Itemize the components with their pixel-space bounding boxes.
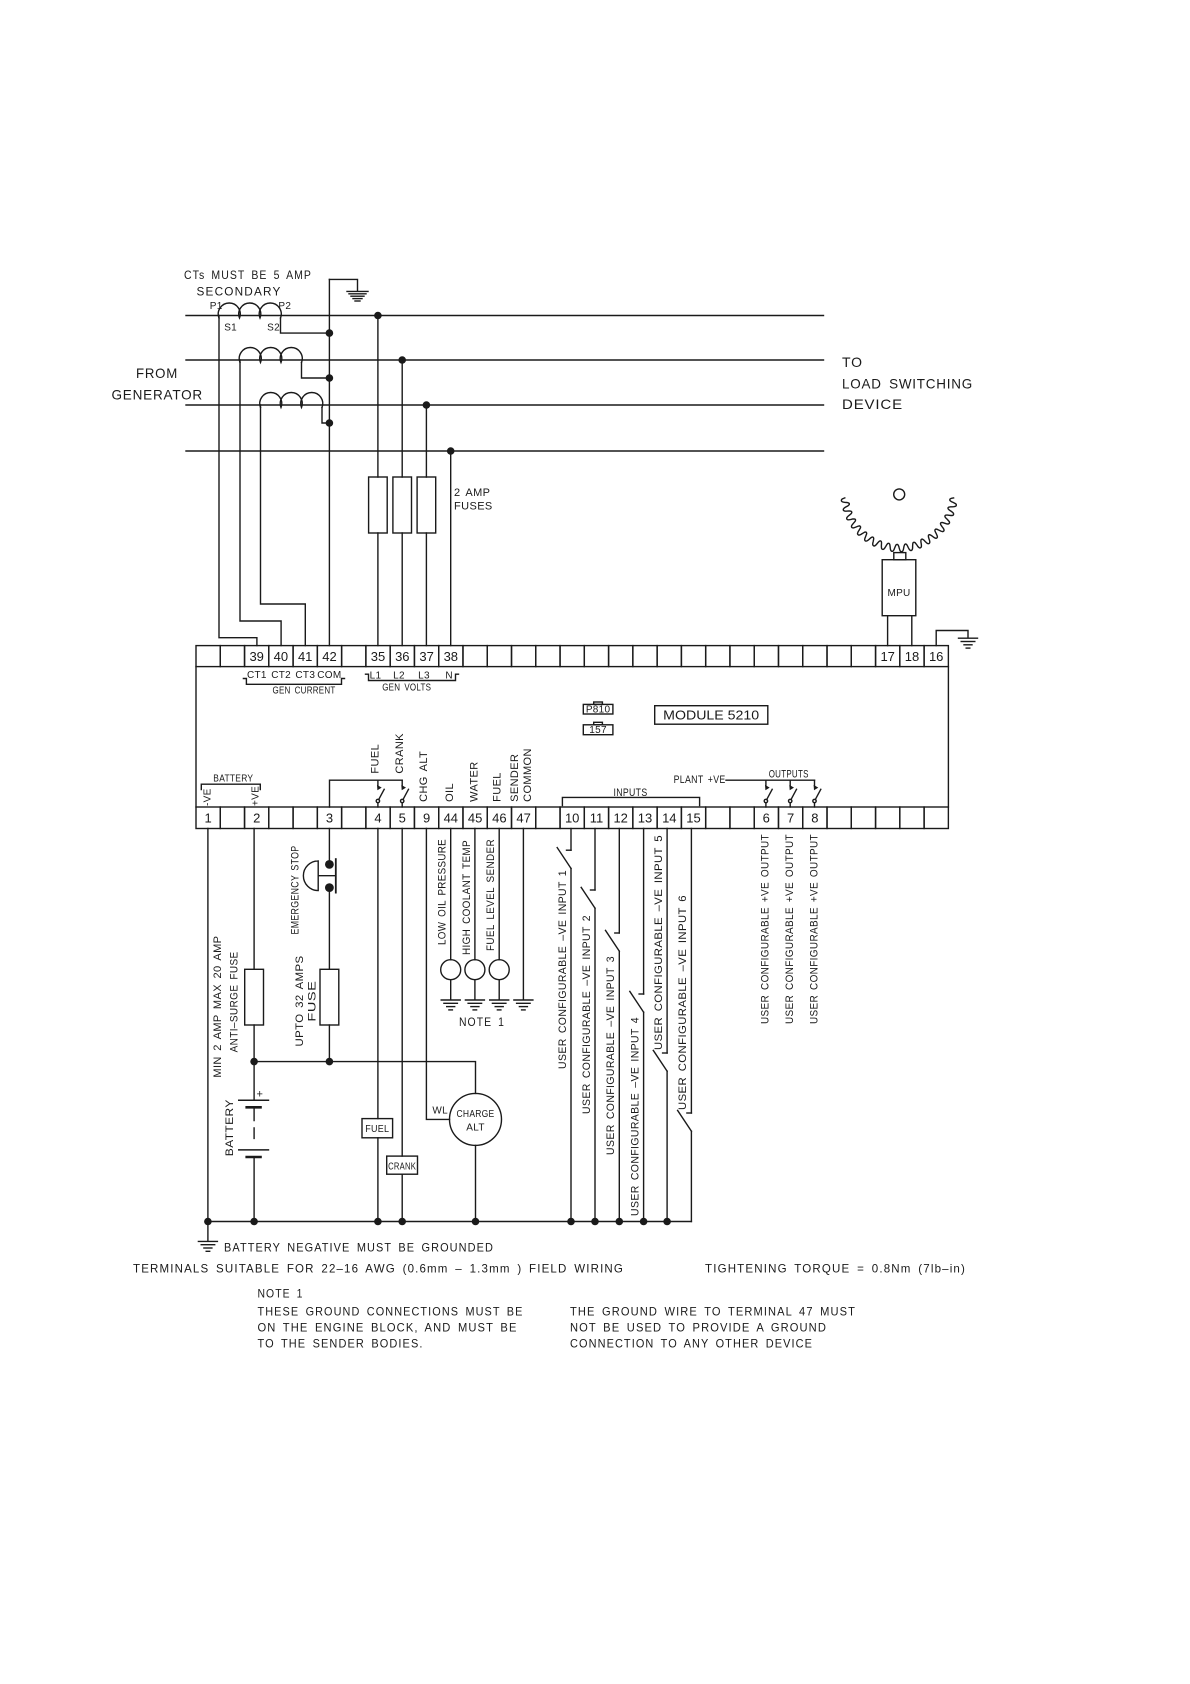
svg-text:13: 13 bbox=[638, 811, 652, 826]
fuse 2A L2 bbox=[393, 477, 412, 533]
svg-text:WATER: WATER bbox=[468, 761, 480, 802]
note text right bbox=[570, 1305, 856, 1351]
junction battery positive link bbox=[250, 1058, 258, 1066]
fuse 2A L3 bbox=[417, 477, 436, 533]
svg-text:OUTPUTS: OUTPUTS bbox=[769, 769, 809, 781]
svg-text:CRANK: CRANK bbox=[394, 733, 406, 774]
bracket GEN CURRENT bbox=[243, 679, 344, 685]
svg-text:CT1: CT1 bbox=[247, 670, 267, 681]
wire battery negative bus bbox=[208, 1221, 692, 1223]
svg-text:BATTERY: BATTERY bbox=[213, 774, 253, 785]
svg-text:CT3: CT3 bbox=[295, 670, 315, 681]
relay contact OUTPUT terminal 7 bbox=[789, 780, 791, 785]
svg-text:FUEL: FUEL bbox=[369, 744, 381, 774]
relay box FUEL bbox=[362, 1119, 393, 1138]
svg-text:-VE: -VE bbox=[202, 788, 213, 806]
svg-text:10: 10 bbox=[565, 811, 579, 826]
wire terminal 3 down to emergency stop bbox=[328, 829, 330, 865]
svg-text:1: 1 bbox=[204, 811, 211, 826]
wire terminal 9 to charge alternator WL bbox=[426, 829, 449, 1120]
CT1 current transformer coil bbox=[218, 303, 281, 318]
wire CT3 S1 to terminal 41 bbox=[261, 405, 306, 646]
svg-text:USER CONFIGURABLE +VE OUTPUT: USER CONFIGURABLE +VE OUTPUT bbox=[784, 834, 796, 1024]
svg-text:SECONDARY: SECONDARY bbox=[197, 285, 282, 299]
svg-text:BATTERY NEGATIVE MUST BE GROUN: BATTERY NEGATIVE MUST BE GROUNDED bbox=[224, 1241, 494, 1255]
junction phase tap L1 bbox=[374, 312, 382, 320]
svg-text:P1: P1 bbox=[210, 301, 223, 312]
label TO LOAD SWITCHING DEVICE bbox=[842, 354, 973, 412]
wire phase line LN bbox=[186, 450, 824, 452]
relay contact OUTPUT terminal 6 bbox=[765, 780, 767, 785]
svg-text:USER CONFIGURABLE –VE INPUT 2: USER CONFIGURABLE –VE INPUT 2 bbox=[581, 915, 593, 1114]
svg-text:FUEL LEVEL SENDER: FUEL LEVEL SENDER bbox=[485, 839, 497, 951]
MPU magnetic pickup body bbox=[882, 553, 916, 616]
wire 32A fuse to plant supply link bbox=[328, 1025, 330, 1062]
input switch USER CONFIGURABLE -VE INPUT 3 bbox=[606, 829, 620, 1222]
wire terminal 2 to anti-surge fuse bbox=[253, 829, 255, 970]
svg-text:NOTE 1: NOTE 1 bbox=[258, 1287, 304, 1301]
svg-text:14: 14 bbox=[662, 811, 676, 826]
svg-text:TO THE SENDER BODIES.: TO THE SENDER BODIES. bbox=[258, 1337, 424, 1351]
svg-text:COM: COM bbox=[317, 670, 341, 681]
emergency stop push button bbox=[325, 860, 334, 869]
svg-text:46: 46 bbox=[492, 811, 506, 826]
wire L3 tap down to terminal bbox=[425, 405, 427, 646]
wire terminal to sender HIGH COOLANT TEMP bbox=[474, 829, 476, 960]
svg-text:PLANT +VE: PLANT +VE bbox=[674, 774, 726, 786]
wire terminal 47 to ground bbox=[522, 829, 524, 1000]
junction phase tap L3 bbox=[423, 401, 431, 409]
svg-text:S1: S1 bbox=[224, 323, 237, 334]
junction bus input 2 bbox=[591, 1218, 599, 1226]
wire battery negative to bus bbox=[253, 1157, 255, 1222]
link 157 bbox=[583, 722, 613, 734]
terminal numbers top bbox=[249, 649, 943, 664]
svg-text:39: 39 bbox=[249, 649, 263, 664]
sender circle FUEL LEVEL SENDER bbox=[489, 960, 509, 980]
relay contact FUEL (terminal 4) bbox=[377, 780, 379, 785]
svg-text:CT2: CT2 bbox=[271, 670, 291, 681]
svg-text:THESE GROUND CONNECTIONS MUST: THESE GROUND CONNECTIONS MUST BE bbox=[258, 1305, 524, 1319]
svg-text:GEN CURRENT: GEN CURRENT bbox=[273, 686, 336, 697]
wire COM line to terminal 42 bbox=[328, 279, 330, 645]
svg-text:5: 5 bbox=[399, 811, 406, 826]
svg-text:35: 35 bbox=[371, 649, 385, 664]
wire terminal 16 to ground bbox=[936, 631, 968, 646]
svg-text:LOW OIL PRESSURE: LOW OIL PRESSURE bbox=[437, 839, 449, 945]
svg-text:+: + bbox=[257, 1089, 264, 1101]
svg-text:42: 42 bbox=[322, 649, 336, 664]
labels L1 L2 L3 N bbox=[370, 671, 453, 682]
svg-text:UPTO 32 AMPS: UPTO 32 AMPS bbox=[294, 956, 306, 1047]
wire sender to ground bbox=[474, 980, 476, 1000]
wire charge alternator to bus bbox=[475, 1145, 477, 1221]
label SENDER COMMON bbox=[509, 748, 534, 802]
svg-text:EMERGENCY STOP: EMERGENCY STOP bbox=[289, 846, 301, 935]
svg-text:CRANK: CRANK bbox=[388, 1162, 416, 1173]
terminal numbers bottom bbox=[204, 811, 818, 826]
svg-text:CHARGE: CHARGE bbox=[457, 1109, 495, 1120]
svg-text:+VE: +VE bbox=[251, 786, 262, 806]
sender circle HIGH COOLANT TEMP bbox=[465, 960, 485, 980]
svg-text:OIL: OIL bbox=[444, 783, 456, 802]
wire L2 tap down to terminal bbox=[401, 360, 403, 646]
ground CT common earth bbox=[347, 291, 368, 301]
svg-text:3: 3 bbox=[326, 811, 333, 826]
terminal strip bottom bbox=[196, 807, 948, 829]
wire MPU to terminal 18 bbox=[911, 616, 913, 646]
charge alternator circle bbox=[450, 1093, 502, 1145]
fuse upto 32 amps bbox=[320, 969, 339, 1025]
label CHARGE ALT bbox=[457, 1109, 495, 1134]
svg-text:47: 47 bbox=[516, 811, 530, 826]
flywheel gear teeth bbox=[841, 498, 956, 552]
svg-text:CHG ALT: CHG ALT bbox=[418, 751, 430, 802]
wire terminal 4 through FUEL relay box to bus bbox=[377, 829, 379, 1222]
wire CT1 S2 to COM bbox=[281, 318, 330, 333]
wire sender to ground bbox=[498, 980, 500, 1000]
svg-text:P810: P810 bbox=[586, 704, 611, 715]
svg-text:USER CONFIGURABLE –VE INPUT 4: USER CONFIGURABLE –VE INPUT 4 bbox=[629, 1017, 641, 1216]
svg-text:P2: P2 bbox=[278, 301, 291, 312]
svg-text:FUSES: FUSES bbox=[454, 501, 493, 513]
wire phase line L3 bbox=[186, 404, 824, 406]
wire emergency stop to 32A fuse bbox=[328, 888, 330, 970]
junction bus input 4 bbox=[640, 1218, 648, 1226]
wire L1 tap down to terminal bbox=[377, 316, 379, 646]
wire phase line L2 bbox=[186, 359, 824, 361]
battery cells bbox=[238, 1100, 269, 1157]
svg-text:GENERATOR: GENERATOR bbox=[112, 387, 204, 403]
svg-text:37: 37 bbox=[419, 649, 433, 664]
junction bus input 1 bbox=[567, 1218, 575, 1226]
wire battery inter-cell dashed bbox=[253, 1107, 255, 1138]
svg-text:USER CONFIGURABLE +VE OUTPUT: USER CONFIGURABLE +VE OUTPUT bbox=[760, 834, 772, 1024]
junction phase tap N bbox=[447, 447, 455, 455]
svg-text:USER CONFIGURABLE –VE INPUT 5: USER CONFIGURABLE –VE INPUT 5 bbox=[653, 835, 665, 1050]
svg-text:18: 18 bbox=[905, 649, 919, 664]
svg-text:15: 15 bbox=[686, 811, 700, 826]
svg-text:S2: S2 bbox=[267, 323, 280, 334]
svg-text:MIN 2 AMP MAX 20 AMP: MIN 2 AMP MAX 20 AMP bbox=[212, 936, 224, 1078]
wire sender to ground bbox=[450, 980, 452, 1000]
ground battery negative bbox=[207, 1222, 209, 1242]
junction phase tap L2 bbox=[398, 356, 406, 364]
wire CT1 S1 to terminal 39 bbox=[219, 316, 257, 646]
module name box MODULE 5210 bbox=[655, 706, 768, 725]
svg-text:ANTI–SURGE FUSE: ANTI–SURGE FUSE bbox=[228, 951, 240, 1052]
svg-text:SENDER: SENDER bbox=[509, 754, 521, 802]
svg-text:6: 6 bbox=[763, 811, 770, 826]
label CTs MUST BE 5 AMP SECONDARY bbox=[184, 268, 312, 299]
input switch USER CONFIGURABLE -VE INPUT 2 bbox=[581, 829, 595, 1222]
svg-text:COMMON: COMMON bbox=[522, 748, 534, 802]
svg-text:INPUTS: INPUTS bbox=[614, 787, 648, 799]
svg-text:USER CONFIGURABLE +VE OUTPUT: USER CONFIGURABLE +VE OUTPUT bbox=[808, 834, 820, 1024]
svg-text:HIGH COOLANT TEMP: HIGH COOLANT TEMP bbox=[461, 840, 473, 955]
bracket GEN VOLTS bbox=[366, 674, 459, 680]
ground terminal 16 earth bbox=[959, 638, 978, 648]
svg-text:TO: TO bbox=[842, 354, 863, 370]
svg-text:LOAD SWITCHING: LOAD SWITCHING bbox=[842, 376, 973, 392]
wire terminal to sender FUEL LEVEL SENDER bbox=[498, 829, 500, 960]
svg-text:USER CONFIGURABLE –VE INPUT 1: USER CONFIGURABLE –VE INPUT 1 bbox=[557, 870, 569, 1069]
svg-text:WL: WL bbox=[432, 1106, 448, 1117]
ground sender earth bbox=[490, 1000, 509, 1010]
svg-text:ALT: ALT bbox=[466, 1123, 485, 1134]
CT2 current transformer coil bbox=[239, 348, 302, 363]
flywheel center mark circle bbox=[894, 489, 905, 500]
svg-text:7: 7 bbox=[787, 811, 794, 826]
svg-text:16: 16 bbox=[929, 649, 943, 664]
wire terminal 3 riser to relay rail bbox=[330, 780, 403, 807]
wire fuse to battery junction bbox=[253, 1025, 255, 1100]
bracket INPUTS bbox=[562, 797, 699, 805]
svg-text:17: 17 bbox=[880, 649, 894, 664]
svg-text:41: 41 bbox=[298, 649, 312, 664]
svg-text:FUSE: FUSE bbox=[307, 981, 319, 1022]
junction CT1 S2/COM bbox=[326, 329, 334, 337]
svg-text:8: 8 bbox=[811, 811, 818, 826]
note text left bbox=[258, 1305, 524, 1351]
CT3 current transformer coil bbox=[260, 393, 323, 408]
wire CT2 S2 to COM bbox=[302, 363, 330, 379]
svg-text:40: 40 bbox=[274, 649, 288, 664]
wire terminal 1 to battery negative bus bbox=[207, 829, 209, 1222]
fuse anti-surge bbox=[245, 969, 264, 1025]
input switch USER CONFIGURABLE -VE INPUT 1 bbox=[557, 829, 571, 1222]
labels CT1 CT2 CT3 COM bbox=[247, 670, 342, 681]
wire N tap down to terminal bbox=[450, 451, 452, 646]
svg-text:GEN VOLTS: GEN VOLTS bbox=[382, 683, 431, 694]
input switch USER CONFIGURABLE -VE INPUT 6 bbox=[678, 829, 692, 1222]
svg-text:45: 45 bbox=[468, 811, 482, 826]
svg-text:2: 2 bbox=[253, 811, 260, 826]
fuse 2A L1 bbox=[369, 477, 388, 533]
label FROM GENERATOR bbox=[112, 365, 204, 403]
wire CT3 S2 to COM bbox=[322, 408, 329, 424]
wire terminal to sender LOW OIL PRESSURE bbox=[450, 829, 452, 960]
svg-text:MODULE 5210: MODULE 5210 bbox=[663, 708, 759, 723]
wire MPU to terminal 17 bbox=[887, 616, 889, 646]
input switch USER CONFIGURABLE -VE INPUT 5 bbox=[653, 829, 667, 1222]
wire COM to ground bbox=[329, 279, 357, 291]
junction CT2 S2/COM bbox=[326, 374, 334, 382]
input switch USER CONFIGURABLE -VE INPUT 4 bbox=[630, 829, 644, 1222]
wire plant supply link to charge alternator bbox=[254, 1062, 475, 1094]
svg-text:FUEL: FUEL bbox=[492, 772, 504, 802]
svg-text:USER CONFIGURABLE –VE INPUT 6: USER CONFIGURABLE –VE INPUT 6 bbox=[677, 895, 689, 1110]
svg-text:CONNECTION TO ANY OTHER DEVICE: CONNECTION TO ANY OTHER DEVICE bbox=[570, 1337, 813, 1351]
junction bus input 3 bbox=[616, 1218, 624, 1226]
relay box CRANK bbox=[387, 1156, 418, 1174]
svg-text:11: 11 bbox=[590, 811, 604, 826]
svg-text:157: 157 bbox=[589, 725, 607, 736]
svg-text:DEVICE: DEVICE bbox=[842, 396, 903, 412]
svg-text:12: 12 bbox=[613, 811, 627, 826]
svg-text:44: 44 bbox=[444, 811, 458, 826]
wire PLANT +VE rail bbox=[726, 779, 815, 781]
svg-text:NOT BE USED TO PROVIDE A GROUN: NOT BE USED TO PROVIDE A GROUND bbox=[570, 1321, 827, 1335]
svg-text:4: 4 bbox=[374, 811, 381, 826]
svg-text:36: 36 bbox=[395, 649, 409, 664]
svg-text:ON THE ENGINE BLOCK, AND MUST: ON THE ENGINE BLOCK, AND MUST BE bbox=[258, 1321, 518, 1335]
relay contact OUTPUT terminal 8 bbox=[814, 780, 816, 785]
svg-text:TERMINALS SUITABLE FOR 22–16 A: TERMINALS SUITABLE FOR 22–16 AWG (0.6mm … bbox=[133, 1262, 624, 1276]
svg-text:9: 9 bbox=[423, 811, 430, 826]
svg-text:TIGHTENING TORQUE = 0.8Nm (7lb: TIGHTENING TORQUE = 0.8Nm (7lb–in) bbox=[705, 1262, 966, 1276]
link P810 bbox=[583, 702, 613, 714]
junction CT3 S2/COM bbox=[326, 419, 334, 427]
svg-text:THE GROUND WIRE TO TERMINAL 47: THE GROUND WIRE TO TERMINAL 47 MUST bbox=[570, 1305, 856, 1319]
svg-text:FUEL: FUEL bbox=[365, 1124, 389, 1135]
svg-text:BATTERY: BATTERY bbox=[224, 1099, 236, 1156]
module body outline bbox=[196, 667, 948, 807]
sender circle LOW OIL PRESSURE bbox=[441, 960, 461, 980]
svg-text:2 AMP: 2 AMP bbox=[454, 487, 490, 499]
svg-text:USER CONFIGURABLE –VE INPUT 3: USER CONFIGURABLE –VE INPUT 3 bbox=[605, 956, 617, 1155]
label 2 AMP FUSES bbox=[454, 487, 493, 513]
ground sender common earth bbox=[514, 1000, 533, 1010]
wire CT2 S1 to terminal 40 bbox=[240, 360, 281, 646]
svg-text:38: 38 bbox=[444, 649, 458, 664]
bracket BATTERY bbox=[201, 784, 260, 789]
wire terminal 5 through CRANK relay box to bus bbox=[401, 829, 403, 1222]
svg-text:FROM: FROM bbox=[136, 365, 178, 381]
junction bus terminal 1 bbox=[204, 1218, 212, 1226]
wire phase line L1 bbox=[186, 315, 824, 317]
terminal strip top bbox=[196, 646, 948, 667]
junction bus input 5 bbox=[663, 1218, 671, 1226]
ground sender earth bbox=[441, 1000, 460, 1010]
svg-text:CTs MUST BE 5 AMP: CTs MUST BE 5 AMP bbox=[184, 268, 312, 282]
svg-text:NOTE 1: NOTE 1 bbox=[459, 1015, 505, 1029]
relay contact CRANK (terminal 5) bbox=[401, 780, 403, 785]
svg-text:MPU: MPU bbox=[887, 588, 910, 599]
ground sender earth bbox=[465, 1000, 484, 1010]
